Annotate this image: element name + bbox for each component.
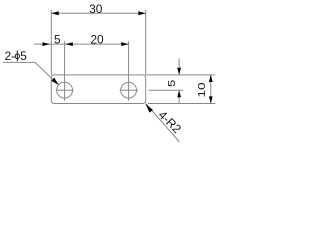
svg-text:30: 30 [89,2,103,16]
svg-text:5: 5 [167,80,177,87]
svg-text:5: 5 [54,32,61,46]
svg-text:-: - [11,49,15,63]
svg-text:5: 5 [20,49,27,63]
svg-text:20: 20 [90,32,104,46]
svg-text:10: 10 [196,82,207,98]
